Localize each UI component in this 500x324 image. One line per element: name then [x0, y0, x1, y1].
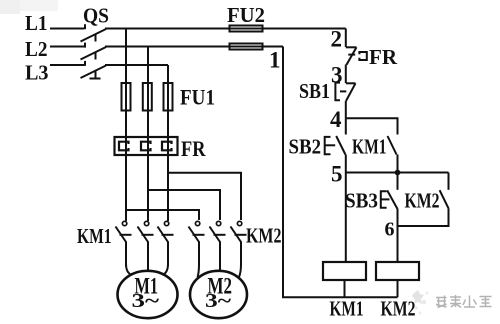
- switch QS pole 2 jaw: [95, 52, 97, 60]
- watermark icon: [412, 290, 429, 315]
- fuse FU1a body: [122, 83, 131, 111]
- svg-text:L1: L1: [25, 11, 48, 35]
- contactor KM2 pole2: [210, 221, 226, 271]
- wire row2 QS to corner: [105, 46, 283, 48]
- wire node4 branch: [346, 118, 398, 134]
- svg-text:KM1: KM1: [77, 224, 112, 248]
- switch QS pole 1 jaw: [95, 34, 97, 42]
- wire node6 to KM2 coil: [397, 226, 399, 262]
- wire L1 lead-in: [50, 28, 84, 30]
- wire M2 lead right curve: [239, 264, 241, 277]
- wire phase B vertical: [147, 47, 149, 222]
- contactor KM2 aux NO contact: [398, 173, 449, 227]
- wire control line 1 left rail: [283, 47, 398, 298]
- switch QS pole 1 blade: [81, 29, 107, 42]
- wire branch phase A to KM2 pole1: [126, 210, 199, 220]
- contactor KM1 pole2: [138, 221, 154, 271]
- switch QS pole 3 jaw: [95, 70, 97, 78]
- svg-text:3~: 3~: [132, 290, 160, 312]
- wire node5 to KM1 coil: [345, 173, 347, 263]
- fuse FU1b body: [143, 83, 152, 111]
- wire control line 2 right rail top: [345, 29, 347, 48]
- wire phase C vertical: [167, 65, 169, 221]
- svg-text:1: 1: [269, 48, 281, 73]
- svg-text:SB3: SB3: [345, 189, 378, 213]
- wire row3 QS to phase3: [105, 64, 168, 66]
- svg-text:4: 4: [330, 107, 342, 132]
- wire M1 lead left curve: [126, 264, 132, 275]
- relay FR heater box: [115, 137, 178, 155]
- svg-text:SB2: SB2: [289, 135, 322, 159]
- watermark text: [436, 295, 492, 308]
- svg-text:KM1: KM1: [352, 135, 387, 159]
- button SB2 NO contact: [325, 118, 346, 172]
- svg-text:KM1: KM1: [330, 297, 364, 321]
- svg-text:L2: L2: [25, 37, 48, 61]
- switch QS linkage dashed line: [84, 24, 86, 66]
- svg-text:KM2: KM2: [246, 224, 282, 248]
- relay FR heater element 1: [119, 142, 129, 151]
- relay FR heater element 3: [162, 142, 172, 151]
- wire L3 lead-in: [50, 64, 84, 66]
- contactor KM2 pole1: [189, 221, 205, 266]
- svg-text:3~: 3~: [205, 290, 232, 312]
- contactor KM1 pole1: [116, 221, 132, 266]
- wire branch phase C to KM2 pole3: [168, 173, 241, 220]
- relay FR NC contact: [346, 47, 357, 83]
- svg-text:FR: FR: [181, 136, 206, 161]
- button SB1 NC contact: [335, 83, 355, 119]
- wire M1 lead right curve: [163, 264, 169, 275]
- svg-text:2: 2: [331, 27, 343, 52]
- svg-text:FR: FR: [369, 45, 398, 69]
- switch QS pole 2 blade: [81, 47, 107, 60]
- motor M1 body: [118, 271, 178, 318]
- node 5 junction dot: [395, 170, 401, 176]
- svg-text:L3: L3: [25, 61, 49, 85]
- wire branch phase B to KM2 pole2: [148, 190, 220, 220]
- button SB3 NO contact: [381, 173, 398, 227]
- contactor KM2 pole3: [231, 221, 247, 266]
- svg-text:KM2: KM2: [381, 297, 416, 321]
- wire node5 horizontal: [346, 172, 449, 174]
- fuse FU2b body: [230, 44, 263, 50]
- fuse FU2a body: [230, 26, 263, 32]
- wire L2 lead-in: [50, 46, 84, 48]
- svg-text:QS: QS: [83, 4, 109, 28]
- svg-text:5: 5: [331, 162, 343, 187]
- svg-text:SB1: SB1: [299, 79, 330, 103]
- switch QS pole 3 blade: [81, 66, 107, 79]
- wire KM2 coil bottom stub: [397, 280, 399, 297]
- coil KM1 body: [323, 262, 366, 280]
- wire M2 lead left curve: [198, 264, 200, 277]
- wire KM1 coil bottom stub: [344, 280, 346, 297]
- svg-text:FU2: FU2: [227, 3, 265, 27]
- wire phase A vertical: [125, 29, 127, 222]
- wire row1 QS to right rail: [105, 28, 346, 30]
- relay FR contact bracket: [359, 52, 366, 60]
- svg-text:3: 3: [331, 63, 343, 88]
- contactor KM1 pole3: [158, 221, 174, 266]
- switch QS handle bar: [90, 78, 101, 80]
- relay FR heater element 2: [141, 142, 151, 151]
- svg-text:6: 6: [385, 219, 395, 241]
- fuse FU1c body: [164, 83, 173, 111]
- contactor KM1 aux NO contact: [388, 136, 398, 173]
- svg-text:KM2: KM2: [405, 189, 440, 213]
- coil KM2 body: [376, 262, 419, 280]
- motor M2 body: [190, 271, 247, 318]
- svg-text:FU1: FU1: [180, 85, 215, 110]
